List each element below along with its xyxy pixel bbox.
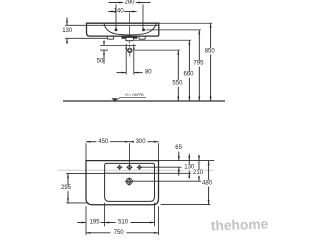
svg-text:195: 195 — [90, 220, 101, 226]
svg-text:660: 660 — [183, 72, 194, 78]
svg-text:280: 280 — [124, 0, 135, 6]
svg-text:50: 50 — [97, 59, 104, 65]
svg-text:65: 65 — [175, 145, 182, 151]
svg-text:450: 450 — [98, 139, 109, 145]
svg-text:850: 850 — [205, 48, 216, 54]
svg-text:210: 210 — [193, 170, 204, 176]
svg-text:480: 480 — [202, 180, 213, 186]
svg-text:795: 795 — [193, 60, 204, 66]
svg-text:550: 550 — [172, 81, 183, 87]
svg-text:300: 300 — [136, 139, 147, 145]
svg-text:130: 130 — [62, 28, 73, 34]
svg-text:thehome: thehome — [211, 216, 269, 233]
svg-text:750: 750 — [114, 230, 125, 236]
svg-text:80: 80 — [145, 70, 152, 76]
svg-text:510: 510 — [118, 220, 129, 226]
svg-text:140: 140 — [114, 9, 125, 15]
svg-text:295: 295 — [61, 185, 72, 191]
svg-text:+0 = OKFFB: +0 = OKFFB — [124, 93, 144, 97]
